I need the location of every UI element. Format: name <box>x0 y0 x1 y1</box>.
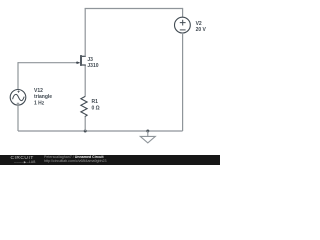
ground stub <box>147 131 149 136</box>
wire drain vertical <box>84 9 86 57</box>
wire R1 top lead <box>84 65 86 97</box>
svg-text:triangle: triangle <box>34 94 52 100</box>
wire R1 bottom lead <box>84 117 86 131</box>
svg-text:0 Ω: 0 Ω <box>92 105 100 111</box>
junction dot at R1 bottom <box>84 130 87 133</box>
footer attribution line 1 <box>44 156 104 160</box>
svg-text:20 V: 20 V <box>196 27 207 33</box>
wire bottom rail <box>18 130 183 132</box>
wire V12 top vertical <box>17 62 19 89</box>
V12 minus sign <box>17 102 19 104</box>
footer url line 2 <box>44 160 107 164</box>
V12 sine waveform <box>13 94 25 100</box>
transistor Q J3 channel bar <box>80 55 82 66</box>
svg-text:V2: V2 <box>196 21 202 27</box>
svg-text:J310: J310 <box>87 63 98 69</box>
junction dot at ground <box>146 130 149 133</box>
voltage source V2 circle <box>175 17 191 33</box>
svg-text:J3: J3 <box>87 57 93 63</box>
resistor R1 zigzag <box>81 96 87 116</box>
CircuitLab logo <box>11 157 34 161</box>
wire gate horizontal from V12 to JFET gate <box>18 62 78 64</box>
footer watermark bar <box>0 155 220 165</box>
V2 plus sign <box>180 20 186 26</box>
ground triangle <box>140 136 155 143</box>
wire V2 bottom lead <box>182 33 184 131</box>
V2 minus sign <box>180 29 186 31</box>
wire V2 top lead <box>182 8 184 17</box>
J3 drain stub <box>82 55 86 57</box>
V12 plus sign <box>17 91 19 93</box>
svg-text:V12: V12 <box>34 88 43 94</box>
wire V12 bottom vertical <box>17 105 19 131</box>
wire top rail <box>85 8 183 10</box>
svg-text:R1: R1 <box>92 99 99 105</box>
J3 gate arrow <box>77 61 80 64</box>
voltage source V12 circle <box>10 90 26 106</box>
svg-text:1 Hz: 1 Hz <box>34 100 45 106</box>
J3 source stub <box>82 64 86 66</box>
